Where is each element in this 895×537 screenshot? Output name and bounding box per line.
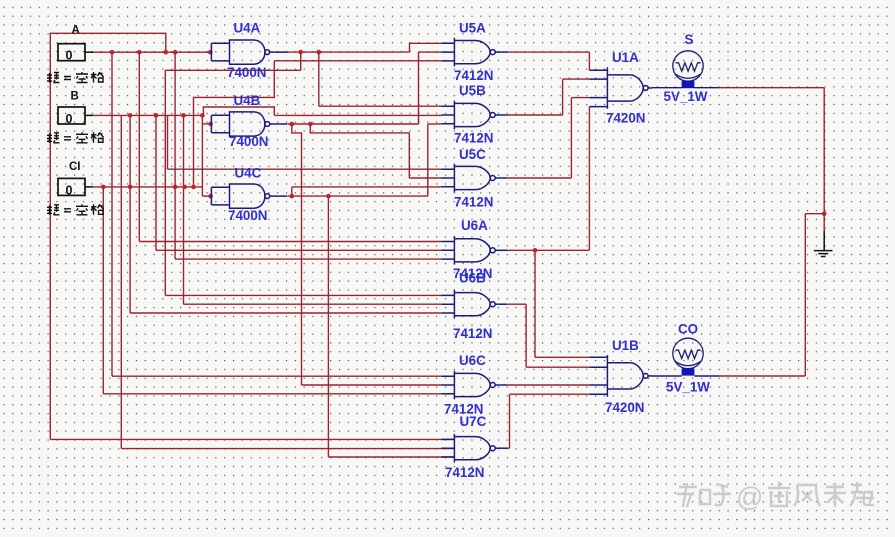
junction U4C tied input	[208, 194, 213, 199]
wire: net CI' drop to U7C pin3	[328, 196, 454, 457]
wire: U6A output row to U1A pin4	[507, 107, 589, 251]
NAND gate U5A (7412N) body	[441, 38, 507, 67]
junction U4C out 2	[326, 194, 331, 199]
svg-text:7420N: 7420N	[606, 111, 645, 126]
svg-text:7412N: 7412N	[454, 131, 493, 146]
pin stubs	[441, 106, 454, 124]
wire: net B' rise to U5A pin2	[419, 52, 442, 124]
svg-text:A: A	[72, 25, 80, 37]
label "key = space" for switch CI	[47, 204, 104, 215]
svg-text:7420N: 7420N	[605, 400, 644, 415]
wire: U5B output to U1A pin2	[507, 79, 589, 115]
wire: jog column into U4B and U4C tied inputs	[202, 115, 210, 196]
svg-text:CO: CO	[678, 322, 698, 337]
junction A at U4A input	[208, 50, 213, 55]
wire: net B row from switch B	[85, 114, 202, 116]
junction CI/U6C3	[101, 185, 106, 190]
pin stubs	[441, 242, 454, 260]
wire: net B drop to U6B pin3	[130, 115, 441, 313]
wire: net A' (U4A output) row with step up to U5A pin1	[288, 43, 442, 52]
svg-text:U4A: U4A	[234, 21, 261, 36]
junction B/U6B2	[181, 113, 186, 118]
junction B/U6B3	[128, 113, 133, 118]
wire: net B bypass over U4B to U5B pin2	[203, 107, 441, 115]
wire: net B drop to U6A pin2	[156, 115, 441, 250]
wire: U6A output branch down to U1B pin1	[535, 250, 589, 357]
wire: net B' run right to U5C pin2	[310, 124, 441, 178]
svg-text:U5C: U5C	[459, 147, 486, 162]
switch A (SPDT key)	[58, 44, 85, 63]
NAND gate U4B (7400N) body	[211, 112, 287, 136]
junction U4A out 1	[298, 50, 303, 55]
svg-text:S: S	[685, 32, 694, 47]
svg-text:7412N: 7412N	[445, 465, 484, 480]
pin stubs	[441, 295, 454, 313]
label "key = space" for switch B	[47, 132, 104, 143]
wire: net A' drop to U6B pin1	[165, 70, 441, 295]
NAND gate U4C (7400N) body	[211, 184, 287, 208]
NAND gate U4A (7400N) body	[211, 40, 287, 64]
svg-text:CI: CI	[69, 161, 81, 173]
svg-text:7400N: 7400N	[229, 134, 268, 149]
svg-text:U6C: U6C	[459, 353, 486, 368]
svg-text:U4B: U4B	[234, 93, 261, 108]
wire: U7C output up to U1B pin4	[507, 394, 589, 448]
svg-text:0: 0	[66, 49, 73, 63]
junction U4A out 2	[317, 50, 322, 55]
wire: drop to U5C pin1	[168, 115, 442, 169]
wire: net A' drop under U4A running left	[165, 52, 300, 70]
junction A/U6C	[110, 50, 115, 55]
NAND gate U5B (7412N) body	[441, 101, 507, 130]
svg-text:0: 0	[66, 183, 73, 197]
svg-text:0: 0	[66, 112, 73, 126]
wire: net CI' (U4C output) row	[288, 195, 428, 197]
junction A/U6A3	[173, 50, 178, 55]
wire: U5C output to U1A pin3	[507, 98, 589, 178]
svg-text:7412N: 7412N	[453, 326, 492, 341]
junction CI col2	[182, 185, 187, 190]
pin stubs	[441, 43, 454, 61]
junction B/U6A2	[154, 113, 159, 118]
svg-text:U5B: U5B	[459, 83, 486, 98]
svg-text:7400N: 7400N	[227, 65, 266, 80]
svg-text:U6A: U6A	[461, 218, 488, 233]
lamp S (5V_1W)	[673, 51, 703, 81]
pin stubs	[589, 70, 607, 106]
wire: net CI' up to U5C pin3	[292, 187, 442, 196]
svg-text:U4C: U4C	[235, 166, 262, 181]
junction U4B tied input	[208, 122, 213, 127]
junction B at bypass	[200, 113, 205, 118]
svg-text:7412N: 7412N	[454, 68, 493, 83]
wire: U6B output to U1B pin2	[507, 304, 589, 367]
NAND gate U5C (7412N) body	[441, 164, 507, 193]
svg-text:5V_1W: 5V_1W	[666, 380, 710, 395]
NAND gate U1B (7420N) body	[589, 355, 652, 397]
svg-text:U5A: U5A	[459, 21, 486, 36]
wire: net CI up and over to U5A pin3	[194, 61, 442, 187]
junction CI/U5A3	[191, 185, 196, 190]
wire: net B' jog down to U6C pin2	[292, 124, 442, 385]
pin stubs	[441, 376, 454, 394]
junction A/U6A	[137, 50, 142, 55]
svg-text:U1B: U1B	[612, 338, 639, 353]
junction CI col	[128, 185, 133, 190]
NAND gate U6C (7412N) body	[441, 371, 507, 400]
switch B (SPDT key)	[58, 107, 85, 126]
svg-text:7412N: 7412N	[454, 195, 493, 210]
NAND gate U1A (7420N) body	[589, 67, 652, 109]
junction at ground	[822, 211, 827, 216]
ground symbol	[814, 231, 833, 257]
wire: net A' drop to U5B pin1	[319, 52, 442, 106]
wire: net CI' rise to U5B pin3	[428, 124, 442, 196]
pin stubs	[441, 169, 454, 187]
junction U4C out 1	[290, 194, 295, 199]
wire: U5A output to U1A pin1	[507, 52, 589, 70]
wire: net CI drop to U6C pin3	[103, 187, 441, 394]
svg-text:U6B: U6B	[459, 271, 486, 286]
wire: net B' (U4B output) row	[288, 123, 419, 125]
svg-text:@: @	[736, 482, 763, 512]
label "key = space" for switch A	[47, 72, 104, 83]
NAND gate U7C (7412N) body	[441, 434, 507, 463]
wire: net A row from switch A to U4A input	[85, 51, 210, 53]
wire: net A drop to U6A pin1	[139, 52, 441, 241]
wire: net CI row from switch CI	[85, 186, 202, 188]
junction A/loop	[164, 50, 169, 55]
wire: U6C output straight to U1B pin3	[507, 384, 589, 386]
wire: net B drop to U6B pin2	[184, 115, 442, 304]
lamp CO (5V_1W)	[673, 338, 703, 368]
junction U4B out 2	[308, 122, 313, 127]
svg-text:7400N: 7400N	[228, 208, 267, 223]
NAND gate U6A (7412N) body	[441, 236, 507, 265]
wire: net B drop to U7C pin2	[121, 115, 454, 448]
wire: U1B output through lamp CO up to ground junction	[652, 214, 824, 376]
wire: net A loop over switch A down left side to U7C pin1	[50, 33, 454, 439]
junction U4B out 1	[290, 122, 295, 127]
svg-text:B: B	[71, 91, 79, 103]
junction U6A out	[533, 248, 538, 253]
svg-text:U1A: U1A	[612, 50, 639, 65]
NAND gate U6B (7412N) body	[441, 290, 507, 319]
wire: net A drop to U6A pin3	[175, 52, 441, 259]
svg-text:5V_1W: 5V_1W	[664, 89, 708, 104]
switch CI (SPDT key)	[58, 178, 85, 197]
wire: U1A output through lamp S to ground	[652, 88, 824, 214]
pin stubs	[441, 439, 454, 457]
wire: net CI jog into U4C tied inputs	[202, 195, 210, 197]
svg-text:U7C: U7C	[460, 414, 487, 429]
junction CI/U6A3	[173, 185, 178, 190]
pin stubs	[589, 357, 607, 394]
wire: net A drop to U6C pin1	[112, 52, 441, 376]
watermark zhihu @nanfengweiqi	[677, 483, 731, 507]
